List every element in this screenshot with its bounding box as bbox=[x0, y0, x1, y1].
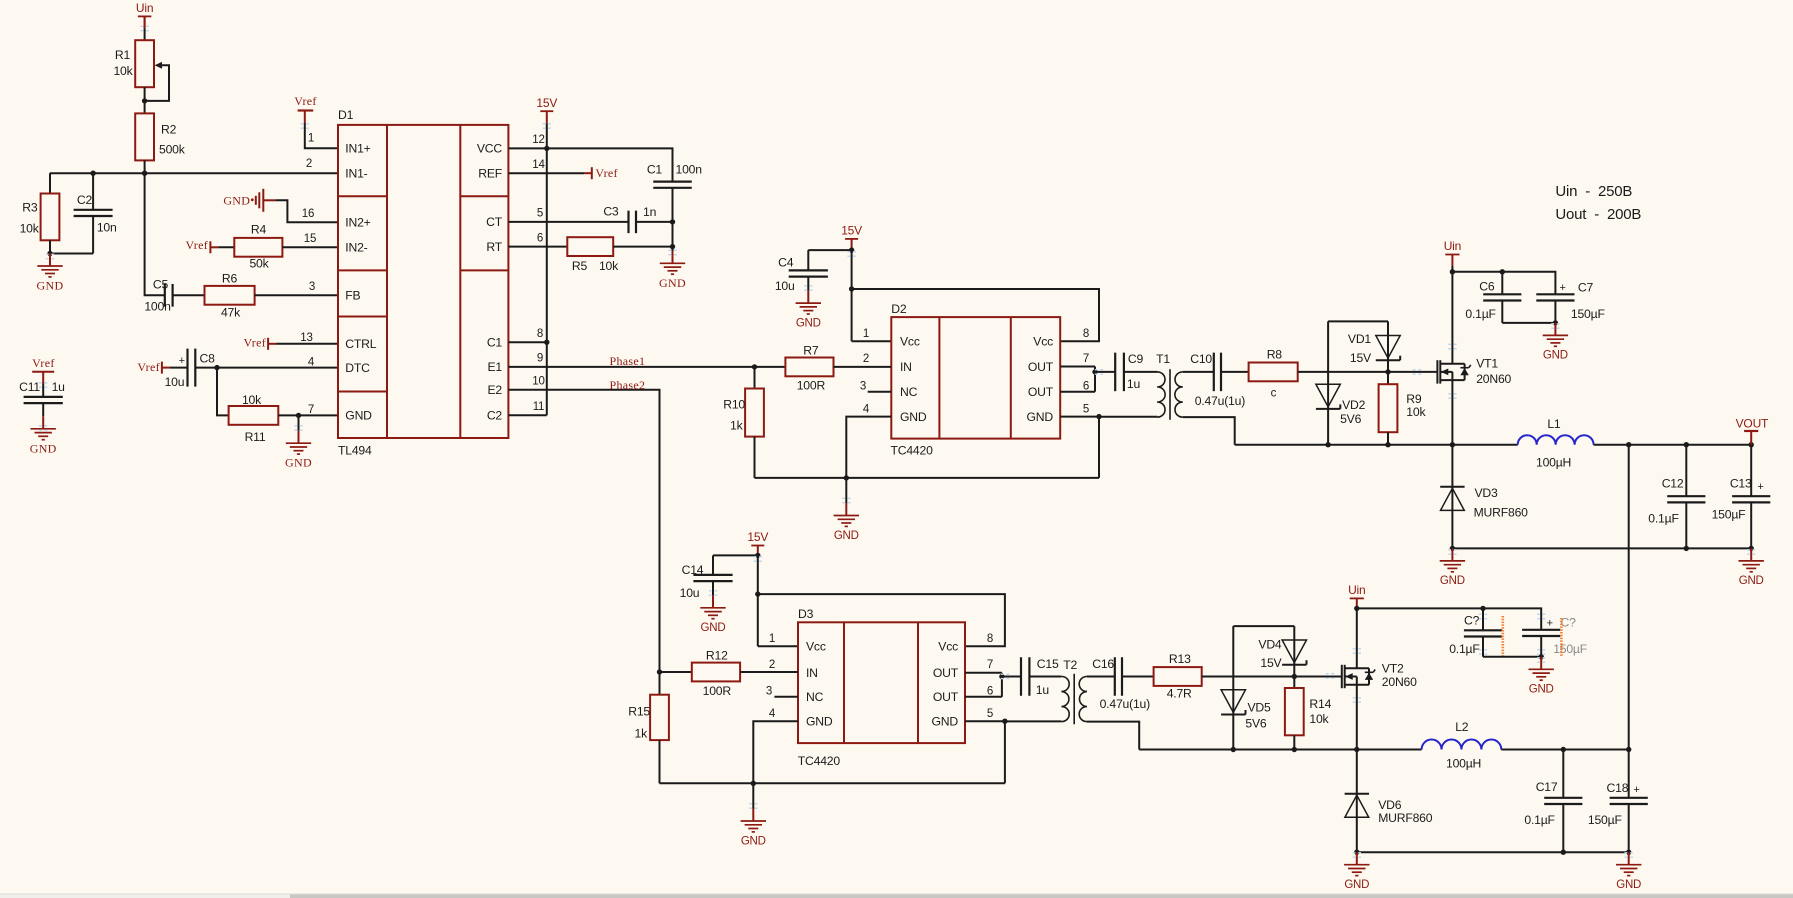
svg-text:IN: IN bbox=[900, 360, 912, 374]
node C8/R11 junction bbox=[214, 365, 219, 370]
wire D2 GND pin 5 bbox=[1060, 417, 1099, 478]
node C4 junction bbox=[849, 247, 854, 252]
svg-text:C1: C1 bbox=[647, 162, 663, 176]
svg-text:GND: GND bbox=[701, 622, 726, 634]
svg-text:MURF860: MURF860 bbox=[1474, 506, 1529, 520]
net label Vref at CTRL bbox=[244, 335, 277, 349]
wire R6 to FB pin 3 bbox=[255, 281, 338, 296]
resistor R11 10k bbox=[229, 393, 279, 444]
svg-text:8: 8 bbox=[537, 328, 543, 340]
wire Uin to VT2 drain bbox=[1356, 610, 1358, 669]
node C13/VOUT junction bbox=[1749, 442, 1754, 447]
svg-text:D3: D3 bbox=[798, 607, 814, 621]
ground symbol below VD6 bbox=[1344, 852, 1369, 891]
svg-text:100n: 100n bbox=[144, 299, 170, 313]
wire D2 ground rail bbox=[755, 477, 1100, 479]
capacitor C5 100n bbox=[144, 278, 174, 314]
svg-text:100n: 100n bbox=[676, 162, 702, 176]
svg-text:NC: NC bbox=[806, 690, 824, 704]
svg-text:Vref: Vref bbox=[186, 238, 208, 252]
net label Phase1 bbox=[610, 354, 646, 368]
capacitor C16 0.47u(1u) bbox=[1092, 657, 1150, 711]
capacitor C14 10u bbox=[680, 555, 758, 599]
power flag Uin at VT2 bbox=[1348, 583, 1365, 610]
svg-text:OUT: OUT bbox=[1028, 360, 1054, 374]
node snubber C top junction bbox=[1480, 606, 1485, 611]
node D3 pin5 junction bbox=[1002, 719, 1007, 724]
svg-text:+: + bbox=[1559, 282, 1565, 294]
svg-text:10k: 10k bbox=[1309, 712, 1329, 726]
node C6 top junction bbox=[1500, 269, 1505, 274]
node R9 rail junction bbox=[1385, 442, 1390, 447]
svg-text:10k: 10k bbox=[599, 259, 619, 273]
svg-text:2: 2 bbox=[769, 659, 775, 671]
node Phase2/R12/R15 junction bbox=[657, 669, 662, 674]
svg-text:9: 9 bbox=[537, 353, 543, 365]
capacitor C1 100n bbox=[647, 162, 702, 259]
svg-text:Uin: Uin bbox=[136, 1, 153, 15]
wire lower ground rail bbox=[1357, 851, 1629, 853]
svg-text:C1: C1 bbox=[487, 336, 503, 350]
wire C10 to R8 bbox=[1221, 371, 1249, 373]
svg-text:Phase1: Phase1 bbox=[610, 354, 646, 368]
svg-text:20N60: 20N60 bbox=[1476, 372, 1511, 386]
ground symbol below C1 bbox=[659, 251, 686, 290]
wire T1 secondary bottom to source rail bbox=[1183, 417, 1235, 445]
node VD4/R14 gate junction bbox=[1292, 674, 1297, 679]
svg-text:+: + bbox=[1757, 481, 1763, 493]
svg-text:100R: 100R bbox=[797, 378, 826, 392]
wire phase2 output feed vertical bbox=[1628, 445, 1630, 750]
svg-text:12: 12 bbox=[532, 134, 544, 146]
capacitor C2 10n bbox=[50, 173, 117, 253]
resistor R3 10k bbox=[20, 173, 60, 253]
node VD2 rail junction bbox=[1325, 442, 1330, 447]
svg-text:C3: C3 bbox=[603, 205, 619, 219]
node D3 OUT junction at C15 bbox=[999, 674, 1004, 679]
wire C8 to DTC pin 4 bbox=[217, 356, 338, 368]
svg-text:8: 8 bbox=[1083, 328, 1089, 340]
wire D3 NC pin 3 stub bbox=[774, 696, 798, 698]
wire C5 branch vertical bbox=[145, 173, 165, 295]
erc marker orange 1 bbox=[1502, 616, 1505, 658]
wire gate clamp loop top 2 bbox=[1233, 625, 1294, 627]
resistor R5 10k bbox=[567, 237, 619, 273]
svg-text:c: c bbox=[1271, 387, 1277, 399]
svg-text:1u: 1u bbox=[1036, 683, 1049, 697]
svg-text:GND: GND bbox=[345, 409, 372, 423]
wire gate clamp loop top bbox=[1328, 320, 1388, 322]
svg-text:CT: CT bbox=[486, 215, 503, 229]
scrollbar bbox=[0, 894, 1793, 898]
svg-text:R4: R4 bbox=[251, 222, 267, 236]
wire R7 to D2 IN pin 2 bbox=[834, 366, 892, 368]
power flag VOUT bbox=[1736, 417, 1769, 445]
wire T2 secondary top to C16 bbox=[1087, 676, 1115, 678]
resistor R8 bbox=[1249, 348, 1298, 400]
svg-text:REF: REF bbox=[478, 167, 502, 181]
svg-text:7: 7 bbox=[1083, 353, 1089, 365]
svg-text:C16: C16 bbox=[1092, 657, 1114, 671]
svg-text:4: 4 bbox=[863, 404, 870, 416]
svg-text:IN1-: IN1- bbox=[345, 167, 367, 181]
ground symbol below C11 bbox=[30, 416, 57, 455]
node C12 top junction bbox=[1684, 442, 1689, 447]
node C7 ground junction bbox=[1553, 320, 1558, 325]
svg-text:500k: 500k bbox=[159, 142, 186, 156]
svg-text:5: 5 bbox=[1083, 404, 1089, 416]
op-amp controller U1 TL494 chip body bbox=[338, 108, 508, 458]
node VT1 source rail junction bbox=[1450, 442, 1455, 447]
wire switch-node rail T1 side bbox=[1235, 444, 1518, 446]
diode VD6 MURF860 bbox=[1345, 750, 1433, 853]
svg-text:Vref: Vref bbox=[595, 166, 617, 180]
svg-text:5: 5 bbox=[537, 208, 543, 220]
ground symbol below C18 bbox=[1616, 852, 1641, 891]
node VD6 ground junction bbox=[1354, 850, 1359, 855]
power flag Vref at pin 1 bbox=[294, 94, 316, 123]
resistor R7 100R bbox=[785, 344, 833, 393]
wire switch-node rail 2 bbox=[1139, 749, 1421, 751]
wire D2 GND pin 4 bbox=[846, 417, 891, 478]
svg-text:0.1µF: 0.1µF bbox=[1524, 813, 1554, 827]
svg-text:C6: C6 bbox=[1479, 279, 1495, 293]
wire VT1 source to rail bbox=[1451, 380, 1453, 445]
wire Vref to IN1+ pin 1 bbox=[305, 123, 338, 148]
wire pin5 to T2 primary bbox=[1005, 720, 1062, 722]
node VT2 source rail junction bbox=[1354, 747, 1359, 752]
ground symbol below VD3 bbox=[1440, 548, 1465, 587]
svg-text:11: 11 bbox=[533, 401, 545, 413]
svg-text:15V: 15V bbox=[747, 530, 768, 544]
transistor VT1 20N60 mosfet bbox=[1437, 357, 1511, 386]
svg-text:C13: C13 bbox=[1730, 476, 1752, 490]
svg-text:10k: 10k bbox=[113, 64, 133, 78]
svg-text:Vref: Vref bbox=[294, 94, 316, 108]
gate driver U2 TC4420 chip body D2 bbox=[860, 302, 1089, 458]
capacitor C15 1u bbox=[1002, 657, 1062, 697]
wire Uin to C6 C7 top bbox=[1452, 272, 1555, 295]
svg-text:C9: C9 bbox=[1128, 352, 1144, 366]
svg-text:1: 1 bbox=[863, 328, 869, 340]
node C13 ground junction bbox=[1749, 546, 1754, 551]
svg-text:C?: C? bbox=[1561, 615, 1577, 629]
svg-text:GND: GND bbox=[806, 715, 833, 729]
svg-text:C15: C15 bbox=[1037, 657, 1059, 671]
node VD5 rail junction bbox=[1231, 747, 1236, 752]
node R1/R2 junction bbox=[142, 98, 147, 103]
svg-text:R6: R6 bbox=[222, 271, 238, 285]
node 15V/C1out pin8 junction bbox=[537, 328, 550, 345]
wire RT pin 6 to R5 bbox=[508, 233, 567, 247]
svg-text:GND: GND bbox=[1440, 575, 1465, 587]
svg-text:IN1+: IN1+ bbox=[345, 142, 370, 156]
node VD3 ground junction bbox=[1450, 546, 1455, 551]
svg-text:Vref: Vref bbox=[32, 356, 54, 370]
wire R5 to C1 bottom bbox=[613, 246, 672, 248]
wire R2 to IN1- net bbox=[144, 160, 146, 173]
power flag 15V above D3 bbox=[747, 530, 768, 557]
capacitor C10 0.47u(1u) bbox=[1190, 352, 1245, 408]
svg-text:TC4420: TC4420 bbox=[798, 754, 841, 768]
svg-text:VD6: VD6 bbox=[1378, 798, 1402, 812]
node pin5 junction bbox=[1096, 414, 1101, 419]
svg-text:FB: FB bbox=[345, 289, 360, 303]
zener diode VD5 5V6 bbox=[1221, 690, 1271, 731]
wire D3 GND pin 4 bbox=[753, 721, 798, 783]
svg-text:R5: R5 bbox=[572, 259, 588, 273]
svg-text:R7: R7 bbox=[803, 344, 819, 358]
resistor R4 50k bbox=[218, 222, 282, 270]
svg-text:TL494: TL494 bbox=[338, 444, 372, 458]
svg-text:L2: L2 bbox=[1455, 720, 1469, 734]
node R14 rail junction bbox=[1292, 747, 1297, 752]
resistor R9 10k bbox=[1379, 372, 1427, 445]
capacitor C8 10u electrolytic bbox=[165, 349, 217, 389]
wire Vref to CTRL pin 13 bbox=[276, 332, 338, 344]
svg-text:3: 3 bbox=[860, 381, 866, 393]
svg-text:C5: C5 bbox=[153, 278, 169, 292]
svg-text:1n: 1n bbox=[643, 205, 656, 219]
wire 15V to D2 Vcc pin 1 bbox=[852, 251, 892, 341]
wire Uin to R1 bbox=[144, 16, 146, 40]
svg-text:20N60: 20N60 bbox=[1382, 675, 1417, 689]
svg-text:1k: 1k bbox=[635, 726, 649, 740]
inductor L2 100uH bbox=[1422, 720, 1502, 771]
svg-text:150µF: 150µF bbox=[1712, 507, 1746, 521]
svg-text:2: 2 bbox=[863, 353, 869, 365]
wire VD5 vertical bbox=[1232, 626, 1234, 749]
resistor R10 1k bbox=[723, 367, 764, 478]
wire D3 ground rail bbox=[660, 782, 1005, 784]
ground symbol below C4 bbox=[796, 291, 821, 330]
ground symbol below R3 bbox=[37, 254, 64, 293]
svg-text:C8: C8 bbox=[200, 351, 216, 365]
node snubber ground junction bbox=[1539, 654, 1544, 659]
wire pin5 to T1 primary bbox=[1099, 416, 1157, 418]
svg-text:7: 7 bbox=[987, 659, 993, 671]
svg-text:VD1: VD1 bbox=[1348, 332, 1372, 346]
svg-text:6: 6 bbox=[537, 233, 543, 245]
svg-text:D1: D1 bbox=[338, 108, 354, 122]
svg-text:10u: 10u bbox=[680, 586, 700, 600]
wire 15V rail vertical to C2 pin 11 bbox=[546, 123, 548, 415]
pin 2 number bbox=[306, 158, 312, 170]
wire GND label to IN2+ pin 16 bbox=[275, 200, 338, 222]
svg-text:100µH: 100µH bbox=[1536, 456, 1571, 470]
capacitor C9 1u bbox=[1095, 352, 1157, 391]
svg-text:OUT: OUT bbox=[1028, 385, 1054, 399]
wire VD1 vertical bbox=[1387, 321, 1389, 372]
ground symbol below snubber bbox=[1529, 657, 1554, 696]
svg-text:Uin - 250B: Uin - 250B bbox=[1555, 183, 1632, 200]
node C1/C3 junction bbox=[670, 219, 675, 224]
ground symbol below C7 bbox=[1543, 323, 1568, 362]
svg-text:R2: R2 bbox=[161, 122, 177, 136]
node 15V/VCC junction bbox=[544, 146, 549, 151]
svg-text:5V6: 5V6 bbox=[1245, 717, 1267, 731]
wire E1 pin 9 Phase1 net bbox=[508, 353, 785, 367]
svg-text:13: 13 bbox=[300, 332, 312, 344]
svg-text:10k: 10k bbox=[242, 393, 262, 407]
svg-text:Vref: Vref bbox=[137, 360, 159, 374]
node C12 ground junction bbox=[1684, 546, 1689, 551]
node C2 junction bbox=[90, 171, 95, 176]
svg-text:0.47u(1u): 0.47u(1u) bbox=[1195, 394, 1246, 408]
wire R1 to R2 bbox=[144, 87, 146, 113]
svg-text:10k: 10k bbox=[1406, 405, 1426, 419]
svg-text:C?: C? bbox=[1464, 614, 1480, 628]
svg-text:OUT: OUT bbox=[933, 666, 959, 680]
svg-text:DTC: DTC bbox=[345, 361, 370, 375]
node pin7 ground junction bbox=[296, 413, 301, 418]
wire R12 to D3 IN pin 2 bbox=[740, 671, 798, 673]
wire D2 NC pin 3 stub bbox=[868, 391, 892, 393]
node L1 output junction bbox=[1626, 442, 1631, 447]
svg-text:C7: C7 bbox=[1578, 281, 1594, 295]
svg-text:GND: GND bbox=[1027, 410, 1054, 424]
svg-text:Vcc: Vcc bbox=[806, 640, 826, 654]
svg-text:10: 10 bbox=[532, 376, 544, 388]
capacitor C7 150uF electrolytic bbox=[1536, 281, 1604, 323]
svg-text:C10: C10 bbox=[1190, 352, 1212, 366]
svg-text:4: 4 bbox=[308, 356, 315, 368]
text annotation Uin Uout bbox=[1555, 183, 1641, 223]
power flag Uin (top left) bbox=[136, 1, 153, 28]
svg-text:1u: 1u bbox=[1127, 377, 1140, 391]
node C1/R5 junction bbox=[670, 244, 675, 249]
svg-text:CTRL: CTRL bbox=[345, 337, 376, 351]
wire VD2 vertical bbox=[1327, 321, 1329, 444]
svg-text:GND: GND bbox=[1739, 575, 1764, 587]
svg-text:0.1µF: 0.1µF bbox=[1449, 642, 1479, 656]
capacitor C18 150uF electrolytic bbox=[1588, 750, 1648, 853]
svg-text:Vref: Vref bbox=[244, 335, 266, 349]
svg-text:R8: R8 bbox=[1267, 348, 1283, 362]
resistor R2 500k bbox=[135, 113, 186, 160]
transistor VT2 20N60 mosfet bbox=[1342, 662, 1417, 689]
svg-text:8: 8 bbox=[987, 633, 993, 645]
svg-text:T1: T1 bbox=[1156, 352, 1170, 366]
node C17 ground junction bbox=[1561, 850, 1566, 855]
wire R4 to IN2- pin 15 bbox=[282, 233, 338, 247]
svg-text:Vcc: Vcc bbox=[900, 335, 920, 349]
node R3/C2 ground junction bbox=[47, 251, 52, 256]
node C14 junction bbox=[755, 553, 760, 558]
resistor R13 4.7R bbox=[1154, 652, 1202, 701]
svg-text:IN: IN bbox=[806, 666, 818, 680]
wire D3 GND pin 5 bbox=[965, 721, 1005, 783]
svg-text:15V: 15V bbox=[841, 224, 862, 238]
svg-text:6: 6 bbox=[987, 686, 993, 698]
svg-text:GND: GND bbox=[30, 441, 57, 455]
svg-text:GND: GND bbox=[796, 317, 821, 329]
svg-text:+: + bbox=[1547, 617, 1553, 629]
svg-text:Uin: Uin bbox=[1444, 239, 1461, 253]
svg-text:IN2-: IN2- bbox=[345, 241, 367, 255]
wire to D2 Vcc pin 8 bbox=[852, 289, 1099, 341]
node Uin2 junction bbox=[1354, 606, 1359, 611]
node L2/C18 output junction bbox=[1626, 747, 1631, 752]
svg-text:150µF: 150µF bbox=[1588, 813, 1622, 827]
wire C6 bottom to C7 bottom bbox=[1502, 322, 1555, 324]
svg-text:VD5: VD5 bbox=[1248, 701, 1272, 715]
svg-text:R11: R11 bbox=[245, 430, 266, 444]
capacitor C? 0.1uF snubber bbox=[1449, 608, 1502, 656]
svg-text:150µF: 150µF bbox=[1571, 307, 1605, 321]
svg-text:3: 3 bbox=[309, 281, 315, 293]
ground symbol below D3 rail bbox=[741, 783, 766, 847]
svg-text:15V: 15V bbox=[1260, 656, 1282, 670]
svg-text:Phase2: Phase2 bbox=[610, 378, 646, 392]
svg-text:10k: 10k bbox=[20, 222, 40, 236]
wire T2 secondary bottom to rail bbox=[1087, 722, 1139, 750]
svg-text:C11: C11 bbox=[19, 380, 40, 394]
wire T1 secondary top to C10 bbox=[1183, 371, 1214, 373]
wire to D3 Vcc pin 8 bbox=[758, 594, 1005, 646]
wire Uin to VT1 drain bbox=[1451, 266, 1453, 364]
inductor L1 100uH bbox=[1518, 417, 1594, 469]
ground net label at IN2+ bbox=[223, 189, 275, 212]
svg-text:VT1: VT1 bbox=[1476, 357, 1498, 371]
net label Vref at DTC bbox=[137, 360, 169, 374]
node Uin/C6 wire junction bbox=[1450, 269, 1455, 274]
resistor R1 10k potentiometer bbox=[113, 40, 169, 101]
capacitor C? 150uF snubber electrolytic bbox=[1522, 615, 1587, 656]
svg-text:D2: D2 bbox=[891, 302, 907, 316]
node D2 rail ground junction bbox=[844, 475, 849, 480]
resistor R12 100R bbox=[660, 649, 741, 698]
net label Phase2 bbox=[610, 378, 646, 392]
power flag Uin at VT1 bbox=[1444, 239, 1461, 266]
wire L2 to output junction bbox=[1501, 749, 1628, 751]
node D3 Vcc8 branch junction bbox=[755, 591, 760, 596]
svg-text:5: 5 bbox=[987, 708, 993, 720]
capacitor C12 0.1uF bbox=[1648, 445, 1705, 549]
power flag Vref at C11 bbox=[32, 356, 54, 384]
wire L1 to VOUT bbox=[1594, 444, 1752, 446]
gate driver U3 TC4420 chip body D3 bbox=[766, 607, 993, 768]
svg-text:Vcc: Vcc bbox=[1033, 335, 1053, 349]
svg-text:47k: 47k bbox=[221, 305, 241, 319]
svg-text:OUT: OUT bbox=[933, 690, 959, 704]
svg-text:Vcc: Vcc bbox=[938, 640, 958, 654]
svg-text:GND: GND bbox=[37, 279, 64, 293]
svg-text:GND: GND bbox=[1543, 350, 1568, 362]
svg-text:NC: NC bbox=[900, 385, 918, 399]
svg-text:4.7R: 4.7R bbox=[1167, 687, 1192, 701]
capacitor C4 10u bbox=[775, 250, 852, 293]
wire E2 pin 10 Phase2 net bbox=[508, 376, 659, 673]
diode VD3 MURF860 bbox=[1440, 445, 1528, 549]
svg-text:16: 16 bbox=[302, 208, 314, 220]
wire D3 OUT pins 7+6 join bbox=[965, 673, 1002, 697]
svg-text:R13: R13 bbox=[1169, 652, 1191, 666]
node C18 ground junction bbox=[1626, 850, 1631, 855]
svg-text:+: + bbox=[179, 355, 185, 367]
svg-text:R12: R12 bbox=[706, 649, 728, 663]
power flag 15V above TL494 bbox=[536, 96, 557, 123]
power flag 15V above D2 bbox=[841, 224, 862, 251]
svg-text:7: 7 bbox=[308, 404, 314, 416]
ground symbol below C14 bbox=[700, 595, 725, 634]
node R2 bottom junction bbox=[142, 171, 147, 176]
wire R8 to VT1 gate bbox=[1298, 371, 1438, 373]
svg-text:10u: 10u bbox=[775, 279, 795, 293]
resistor R15 1k bbox=[628, 672, 669, 783]
svg-text:GND: GND bbox=[900, 410, 927, 424]
svg-text:10n: 10n bbox=[97, 220, 117, 234]
